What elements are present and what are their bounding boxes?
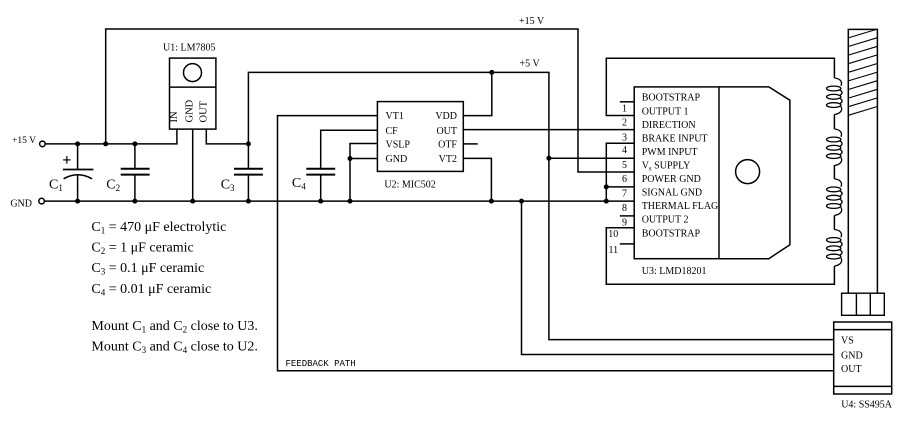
- svg-text:10: 10: [608, 229, 618, 240]
- U3 pin number 3: [622, 132, 627, 143]
- U2 pin label VDD: [435, 111, 457, 122]
- svg-text:3: 3: [622, 132, 627, 143]
- capacitor C1 electrolytic (top lead, straight plate): [63, 144, 94, 170]
- svg-text:FEEDBACK PATH: FEEDBACK PATH: [286, 359, 356, 369]
- U4 pin label VS: [841, 336, 854, 347]
- svg-text:+5 V: +5 V: [520, 59, 541, 70]
- junction dots: [75, 70, 609, 204]
- svg-text:SIGNAL GND: SIGNAL GND: [642, 188, 702, 199]
- svg-text:1: 1: [622, 104, 627, 115]
- U2 reference label: [384, 180, 435, 191]
- U2 pin label CF: [386, 126, 399, 137]
- U1 reference label: [163, 43, 216, 54]
- hall sensor U4 box: [834, 322, 892, 394]
- U3 pin number 8: [622, 203, 627, 214]
- svg-text:BOOTSTRAP: BOOTSTRAP: [642, 228, 701, 239]
- svg-text:U1: LM7805: U1: LM7805: [163, 43, 216, 54]
- wire U3 pin 7 POWER GND to GND riser: [606, 186, 634, 188]
- wire +5V distribution: riser from C3 junction, across top, down and right to U4 VS pin: [248, 72, 833, 339]
- svg-text:U2: MIC502: U2: MIC502: [384, 180, 435, 191]
- svg-text:THERMAL FLAG: THERMAL FLAG: [642, 201, 719, 212]
- U3 pin number 11: [608, 245, 618, 256]
- position sensor mount connector: [842, 293, 885, 315]
- U3 pin label PWM INPUT (pin 5): [642, 147, 698, 158]
- U2 pin label VSLP: [386, 140, 411, 151]
- capacitor C3 ceramic: [234, 144, 263, 201]
- H-bridge U3 inner pin box: [634, 87, 719, 259]
- C3 label: [221, 178, 235, 194]
- notes mounting advice: [91, 319, 258, 355]
- svg-text:5: 5: [622, 160, 627, 171]
- svg-text:PWM INPUT: PWM INPUT: [642, 147, 698, 158]
- svg-text:VSLP: VSLP: [386, 140, 411, 151]
- svg-text:+15 V: +15 V: [12, 136, 36, 146]
- wire U2 VT1 feedback path down and across to U4 OUT: [278, 116, 834, 371]
- U3 pin number 7: [622, 189, 627, 200]
- voltage regulator U1 body outline: [170, 58, 216, 129]
- svg-text:OTF: OTF: [438, 140, 457, 151]
- U3 pin label V_s SUPPLY (pin 6): [642, 161, 691, 173]
- C4 label: [292, 176, 306, 192]
- svg-text:6: 6: [622, 174, 627, 185]
- U1 mounting hole: [184, 64, 202, 82]
- capacitor C4 ceramic: [306, 169, 335, 201]
- wire U3 pin 10 OUTPUT 2 down and across to motor coil bottom: [606, 228, 834, 284]
- U3 pin label BOOTSTRAP (pin 11): [642, 228, 701, 239]
- svg-text:OUT: OUT: [841, 364, 862, 375]
- capacitor C1 curved bottom plate and lead to GND: [64, 175, 92, 201]
- U3 pin 9 stub: [620, 215, 634, 217]
- wire U1 OUT pin down and right to C3 junction (+5V node): [206, 129, 248, 144]
- PWM controller U2 box: [377, 102, 463, 172]
- U4 pin label GND: [841, 350, 863, 361]
- wire U2 CF pin to C4 top: [321, 130, 378, 168]
- svg-text:8: 8: [622, 203, 627, 214]
- U3 pin label BRAKE INPUT (pin 4): [642, 133, 708, 144]
- svg-text:U4: SS495A: U4: SS495A: [841, 400, 893, 411]
- wire +15V rail from input terminal to U1 IN pin: [45, 129, 177, 144]
- svg-text:C3 = 0.1 μF ceramic: C3 = 0.1 μF ceramic: [91, 261, 204, 277]
- svg-text:GND: GND: [10, 199, 32, 210]
- svg-text:VS: VS: [841, 336, 854, 347]
- U3 pin label SIGNAL GND (pin 8): [642, 188, 702, 199]
- notes capacitor values: [91, 220, 226, 297]
- svg-text:IN: IN: [169, 111, 180, 122]
- wire U1 GND pin down to GND rail: [192, 129, 194, 201]
- U2 pin label OTF: [438, 140, 457, 151]
- U3 package outline: [719, 87, 790, 259]
- C1 polarity + sign: [63, 156, 71, 164]
- U3 pin number 9: [622, 218, 627, 229]
- terminal +15V input with label: [12, 136, 45, 147]
- svg-text:OUTPUT 2: OUTPUT 2: [642, 215, 689, 226]
- U3 reference label: [642, 266, 707, 277]
- capacitor C2 ceramic: [121, 144, 150, 201]
- U3 pin number 4: [622, 145, 627, 156]
- wire U3 pin 4 BRAKE INPUT down to GND rail: [606, 143, 634, 201]
- U3 pin 1 stub: [620, 101, 634, 103]
- svg-text:VT1: VT1: [386, 111, 404, 122]
- U3 pin number 6: [622, 174, 627, 185]
- terminal GND input with label: [10, 198, 44, 209]
- U2 pin label VT2: [439, 154, 457, 165]
- svg-text:C1 = 470 μF electrolytic: C1 = 470 μF electrolytic: [91, 220, 226, 236]
- U4 reference label: [841, 400, 893, 411]
- wire +5V branch down to U2 VDD pin: [463, 72, 492, 115]
- svg-text:OUTPUT 1: OUTPUT 1: [642, 106, 689, 117]
- U2 OTF stub (unconnected): [463, 143, 477, 145]
- wire U2 VSLP to GND joint: [350, 144, 377, 159]
- svg-text:OUT: OUT: [198, 100, 209, 122]
- svg-text:POWER GND: POWER GND: [642, 174, 701, 185]
- U3 pin number 2: [622, 117, 627, 128]
- armature magnet hatching: [848, 29, 877, 115]
- svg-text:11: 11: [608, 245, 618, 256]
- svg-text:OUT: OUT: [436, 126, 457, 137]
- U3 pin label DIRECTION (pin 3): [642, 120, 696, 131]
- U3 pin label BOOTSTRAP (pin 1): [642, 93, 701, 104]
- svg-text:VDD: VDD: [435, 111, 457, 122]
- svg-text:CF: CF: [386, 126, 399, 137]
- svg-text:U3: LMD18201: U3: LMD18201: [642, 266, 707, 277]
- svg-text:DIRECTION: DIRECTION: [642, 120, 696, 131]
- solenoid coil L1 windings: [827, 78, 843, 266]
- svg-text:VT2: VT2: [439, 154, 457, 165]
- wire +5V branch to U3 pin 5 PWM INPUT: [549, 157, 634, 159]
- U3 pin number 1: [622, 104, 627, 115]
- svg-text:Mount C3 and C4 close to U2.: Mount C3 and C4 close to U2.: [91, 340, 258, 356]
- wire +15V top distribution: riser from rail, across top, down to U3 pin 6 Vs SUPPLY: [106, 29, 635, 172]
- svg-text:Mount C1 and C2 close to U3.: Mount C1 and C2 close to U3.: [91, 319, 258, 335]
- svg-text:GND: GND: [386, 154, 408, 165]
- wire U3 pin 2 OUTPUT 1 up and across to motor coil top: [606, 58, 834, 115]
- U1 pin label OUT: [198, 100, 209, 122]
- C2 label: [106, 178, 120, 194]
- U2 pin label VT1: [386, 111, 404, 122]
- label FEEDBACK PATH: [286, 359, 356, 369]
- U3 pin label OUTPUT 2 (pin 10): [642, 215, 689, 226]
- U3 pin label OUTPUT 1 (pin 2): [642, 106, 689, 117]
- wire U2 VT2 down to GND rail: [463, 158, 491, 201]
- svg-text:7: 7: [622, 189, 627, 200]
- U3 pin number 5: [622, 160, 627, 171]
- svg-text:2: 2: [622, 117, 627, 128]
- U3 pin label THERMAL FLAG (pin 9): [642, 201, 719, 212]
- armature tube outline: [848, 29, 877, 293]
- wire GND rail from input terminal to U3 pin 8 SIGNAL GND: [44, 200, 634, 202]
- svg-text:4: 4: [622, 145, 627, 156]
- label +5 V on +5V line: [520, 59, 541, 70]
- wire GND rail branch down to U4 GND: [522, 201, 834, 354]
- svg-text:GND: GND: [841, 350, 863, 361]
- U1 pin label GND: [185, 99, 196, 122]
- svg-text:GND: GND: [185, 99, 196, 122]
- wire U2 OUT to U3 pin 3 DIRECTION: [463, 129, 634, 131]
- C1 value label: [49, 178, 63, 194]
- label +15 V on top distribution line: [519, 16, 545, 27]
- svg-text:C2 = 1 μF ceramic: C2 = 1 μF ceramic: [91, 241, 193, 257]
- U3 mounting hole: [736, 160, 760, 184]
- U1 pin label IN: [169, 111, 180, 122]
- svg-text:+15 V: +15 V: [519, 16, 545, 27]
- U2 pin label GND: [386, 154, 408, 165]
- U3 pin number 10: [608, 229, 618, 240]
- U3 pin 11 stub: [620, 243, 634, 245]
- svg-text:C4 = 0.01 μF ceramic: C4 = 0.01 μF ceramic: [91, 282, 211, 298]
- svg-text:BRAKE INPUT: BRAKE INPUT: [642, 133, 708, 144]
- U2 pin label OUT: [436, 126, 457, 137]
- svg-text:BOOTSTRAP: BOOTSTRAP: [642, 93, 701, 104]
- U4 pin label OUT: [841, 364, 862, 375]
- U3 pin label POWER GND (pin 7): [642, 174, 701, 185]
- wire U2 GND pin to GND rail: [350, 159, 377, 202]
